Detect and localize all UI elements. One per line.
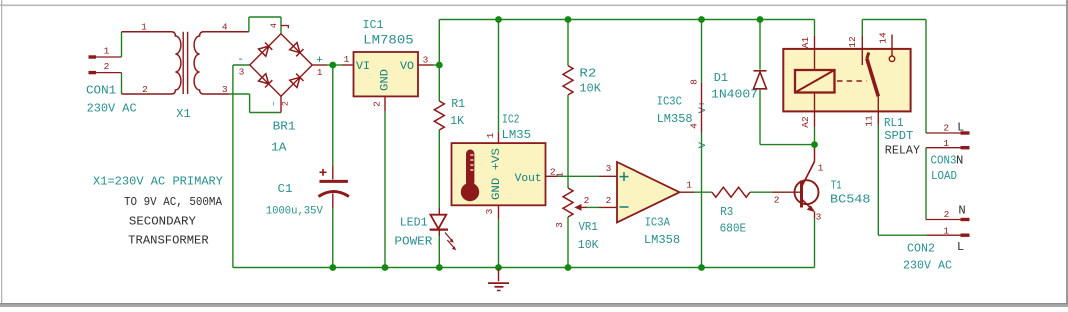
svg-text:R1: R1	[451, 97, 465, 111]
wire D1 anode down	[759, 89, 761, 145]
svg-text:LED1: LED1	[400, 216, 428, 230]
IC1 output lead	[418, 64, 439, 66]
svg-text:T1: T1	[831, 178, 842, 192]
BR1 pin number 1	[317, 67, 323, 78]
label 680E	[720, 222, 747, 236]
T1 base bar	[800, 181, 803, 208]
BR1 plus pin name	[316, 55, 323, 67]
svg-text:1N4007: 1N4007	[711, 88, 758, 102]
junction dot IC1 out	[436, 62, 443, 69]
IC1 pin name VI	[356, 61, 370, 73]
T1 base lead	[772, 191, 800, 193]
svg-text:1A: 1A	[271, 141, 287, 155]
op-amp pin number 3	[606, 163, 612, 174]
CON2 pin number 2	[944, 209, 950, 220]
wire VCC rail	[439, 19, 814, 21]
RL1 pin number 12	[847, 36, 858, 48]
svg-text:3: 3	[484, 208, 495, 214]
RL1 coil	[795, 70, 835, 93]
svg-text:V+: V+	[697, 101, 709, 114]
svg-text:1: 1	[943, 226, 949, 237]
wire D1 to collector node	[760, 144, 815, 146]
wire BR1+ to IC1 VI	[327, 64, 353, 66]
svg-text:A1: A1	[800, 37, 811, 49]
wire down to C1	[332, 65, 334, 180]
svg-text:X1=230V AC PRIMARY: X1=230V AC PRIMARY	[93, 175, 224, 189]
RL1 pin name A1	[800, 37, 811, 49]
svg-text:1: 1	[141, 22, 147, 33]
IC1 pin name VO	[400, 61, 414, 73]
VR1 pin number 1	[555, 172, 566, 178]
svg-text:VI: VI	[356, 61, 370, 73]
wire CON1.1 to X1.1	[121, 32, 123, 57]
wire VR1 wiper to op-amp -	[587, 206, 599, 208]
svg-text:14: 14	[878, 32, 889, 44]
wire R1 to LED1	[438, 130, 440, 215]
LED LED1 triangle	[430, 215, 446, 229]
wire op-amp out to R3	[694, 191, 712, 193]
svg-text:TO 9V AC, 500MA: TO 9V AC, 500MA	[124, 195, 223, 209]
svg-text:11: 11	[864, 115, 875, 127]
bridge rectifier BR1 diamond	[250, 34, 312, 96]
transformer X1 primary winding	[122, 32, 181, 94]
label 1N4007	[711, 88, 758, 102]
wire VR1 to bus	[567, 217, 569, 268]
LED LED1 cathode bar	[430, 229, 448, 231]
RL1 dashed actuator line	[837, 80, 867, 82]
svg-text:L: L	[957, 120, 964, 134]
label 10K (R2)	[579, 82, 601, 96]
svg-text:12: 12	[847, 36, 858, 48]
svg-text:N: N	[958, 204, 965, 218]
BR1 minus pin name	[237, 54, 244, 66]
svg-text:2: 2	[774, 195, 780, 206]
BR1 tilde bottom	[270, 101, 280, 106]
wire LM35 Vout to op-amp +	[557, 175, 599, 177]
svg-text:VO: VO	[400, 61, 414, 73]
wire BR1 minus down to ground bus	[233, 65, 250, 268]
resistor R1	[434, 101, 444, 130]
svg-text:2: 2	[943, 123, 949, 134]
label 1000u,35V	[266, 206, 323, 218]
X1 pin number 1	[141, 22, 147, 33]
CON3 pin number 2	[943, 123, 949, 134]
label X1	[176, 107, 190, 121]
wire RL1 pin11 down	[878, 125, 927, 236]
svg-text:C1: C1	[278, 182, 293, 196]
svg-text:POWER: POWER	[394, 235, 432, 249]
op-amp IC3A triangle	[617, 162, 680, 222]
wire CON3.1 to CON2.2	[925, 148, 927, 220]
IC1 pin number 1	[344, 54, 350, 65]
RL1 pin 11	[877, 96, 879, 124]
X1 pin number 2	[142, 84, 148, 95]
junction dot IC2 gnd/bus	[495, 264, 502, 271]
IC1 gnd pin	[384, 96, 386, 111]
svg-text:1: 1	[317, 67, 323, 78]
label LM358 (IC3A)	[644, 233, 680, 247]
junction dot LED1/bus	[436, 264, 443, 271]
svg-text:10K: 10K	[579, 82, 601, 96]
BR1 diode bottom-left	[259, 74, 273, 88]
wire rail to V+ pin	[701, 20, 703, 84]
svg-text:2: 2	[372, 101, 383, 107]
relay RL1 body	[783, 49, 910, 112]
svg-text:4: 4	[222, 22, 228, 33]
BR1 pin ac-top stub	[281, 26, 289, 29]
label 230V AC (CON1)	[87, 102, 137, 116]
wire X1.3 to BR1 ac-bottom	[229, 94, 281, 113]
BR1 pin number 2 (bottom)	[281, 101, 291, 106]
connector CON2 pin 1	[927, 234, 970, 236]
wire VCC riser	[438, 20, 440, 66]
wire T1 emitter to bus	[814, 218, 816, 268]
junction dot rail/V+	[698, 16, 705, 23]
junction dot rail/R2	[565, 16, 572, 23]
svg-text:SECONDARY: SECONDARY	[129, 215, 197, 229]
IC3C pin name V-	[697, 136, 709, 149]
resistor R3	[712, 187, 750, 197]
svg-text:3: 3	[606, 163, 612, 174]
svg-text:1: 1	[943, 138, 949, 149]
label 1A	[271, 141, 287, 155]
transformer X1 secondary winding	[194, 32, 249, 94]
svg-text:SPDT: SPDT	[884, 129, 913, 143]
wire V- to bus	[701, 133, 703, 268]
label R2	[579, 66, 596, 80]
svg-text:1: 1	[818, 163, 824, 174]
svg-text:GND +VS: GND +VS	[491, 148, 503, 200]
svg-text:3: 3	[239, 67, 245, 78]
svg-text:CON1: CON1	[86, 83, 116, 97]
RL1 pin 14 and contact	[889, 35, 895, 62]
junction dot V-/bus	[698, 264, 705, 271]
junction dot rail/D1	[757, 16, 764, 23]
IC2 pin number 1	[485, 132, 496, 138]
label IC2	[502, 113, 520, 127]
note line 2	[124, 195, 223, 209]
frame right edge	[1066, 0, 1068, 307]
label RL1	[884, 116, 904, 130]
svg-text:1: 1	[344, 54, 350, 65]
svg-text:IC2: IC2	[502, 113, 520, 127]
connector CON3 pin 2	[926, 132, 970, 134]
RL1 coil leads	[814, 49, 816, 112]
label LED1	[400, 216, 428, 230]
net label N (CON2)	[958, 204, 965, 218]
svg-text:IC3C: IC3C	[657, 94, 682, 108]
op-amp pin 2 lead	[599, 206, 617, 208]
IC3C pin name V+	[697, 101, 709, 114]
svg-text:A2: A2	[800, 116, 811, 128]
junction dot IC1 gnd/bus	[382, 264, 389, 271]
connector CON1 pin 1 pad	[89, 55, 122, 58]
svg-text:2: 2	[944, 209, 950, 220]
BR1 diode top-right	[290, 43, 304, 57]
RL1 pin 12	[861, 36, 863, 65]
regulator IC1 body	[354, 52, 419, 96]
IC2 pin name Vout	[515, 173, 542, 185]
svg-text:2: 2	[584, 195, 590, 206]
junction dot BR1+/C1	[329, 62, 336, 69]
label CON3	[931, 154, 957, 168]
note line 4	[128, 234, 209, 248]
label LM7805	[363, 33, 414, 48]
label C1	[278, 182, 293, 196]
svg-text:R2: R2	[579, 66, 596, 80]
wire LED1 to bus	[438, 230, 440, 268]
IC1 pin number 3	[423, 55, 429, 66]
wire CON1.2 to X1.2	[121, 73, 123, 94]
wire rail to RL1 A1	[814, 20, 816, 37]
note line 1	[93, 175, 224, 189]
svg-text:L: L	[957, 240, 964, 254]
capacitor C1 plus sign	[320, 169, 327, 176]
label LM35	[502, 128, 532, 142]
wire R3 to T1 base	[750, 191, 772, 193]
frame left edge	[1, 0, 2, 307]
svg-text:BC548: BC548	[830, 192, 871, 206]
VR1 pin number 3	[554, 222, 565, 228]
op-amp pin 3 lead	[599, 175, 617, 177]
label IC3C	[657, 94, 682, 108]
svg-text:R3: R3	[720, 205, 733, 219]
svg-text:LM358: LM358	[644, 233, 680, 247]
junction dot collector node	[811, 141, 818, 148]
svg-text:2: 2	[281, 101, 291, 106]
svg-text:IC1: IC1	[363, 18, 384, 32]
label R1	[451, 97, 465, 111]
svg-text:LOAD: LOAD	[931, 169, 957, 183]
svg-text:X1: X1	[176, 107, 190, 121]
net label L (CON2)	[957, 240, 964, 254]
svg-text:Vout: Vout	[515, 173, 542, 185]
RL1 pin number 11	[864, 115, 875, 127]
svg-text:V−: V−	[697, 136, 709, 149]
svg-text:LM7805: LM7805	[363, 33, 414, 48]
svg-text:RELAY: RELAY	[885, 144, 921, 158]
wire R2 to VR1	[567, 95, 569, 188]
connector CON1 pin 2 pad	[89, 71, 122, 74]
potentiometer VR1 body	[563, 188, 573, 217]
CON1 pin number 2	[104, 61, 110, 72]
connector CON3 pin 1	[926, 147, 970, 149]
capacitor C1 top plate	[320, 180, 348, 183]
label T1	[831, 178, 842, 192]
ground symbol	[488, 268, 509, 291]
wire IC2 gnd to bus	[498, 219, 500, 268]
op-amp pin number 2	[606, 195, 612, 206]
svg-text:3: 3	[423, 55, 429, 66]
svg-text:D1: D1	[714, 71, 728, 85]
net label N (CON3)	[956, 154, 963, 168]
wire junction to R1	[438, 65, 440, 101]
svg-text:3: 3	[554, 222, 565, 228]
X1 pin number 3	[222, 84, 228, 95]
wire RL1 pin12 to rail2	[861, 20, 863, 37]
wire rail2 down to CON3.2	[925, 20, 927, 134]
svg-text:2: 2	[142, 84, 148, 95]
label RELAY	[885, 144, 921, 158]
label 230V AC (CON2)	[903, 259, 952, 273]
svg-text:~: ~	[270, 101, 280, 106]
IC2 pin number 2	[550, 167, 556, 178]
IC2 pin 2 lead	[546, 175, 558, 177]
label SPDT	[884, 129, 913, 143]
svg-text:+: +	[316, 55, 323, 67]
BR1 pin ac-bottom stub	[280, 96, 282, 112]
svg-text:3: 3	[222, 84, 228, 95]
IC2 pin name GND +VS	[491, 148, 503, 200]
RL1 pin name A2	[800, 116, 811, 128]
BR1 pin number 3	[239, 67, 245, 78]
label D1	[714, 71, 728, 85]
svg-text:2: 2	[104, 61, 110, 72]
wire RL1 A2 to collector node	[814, 127, 816, 145]
T1 collector	[802, 147, 815, 186]
junction dot C1/bus	[329, 264, 336, 271]
IC3C V- pin	[701, 99, 703, 133]
svg-text:-: -	[237, 54, 244, 66]
resistor R2	[563, 66, 573, 95]
VR1 pin number 2	[584, 195, 590, 206]
IC1 pin name GND	[380, 69, 392, 91]
transistor T1 circle	[795, 180, 819, 204]
svg-text:680E: 680E	[720, 222, 747, 236]
connector CON2 pin 2	[926, 219, 970, 221]
svg-text:10K: 10K	[578, 238, 599, 252]
diode D1	[754, 71, 767, 89]
svg-text:1: 1	[485, 132, 496, 138]
svg-text:3: 3	[816, 212, 822, 223]
svg-text:8: 8	[689, 79, 700, 85]
op-amp plus marking	[620, 172, 629, 181]
svg-text:BR1: BR1	[273, 120, 296, 134]
IC2 pin 1 lead	[498, 133, 500, 144]
op-amp pin number 1	[686, 180, 692, 191]
wire IC1 gnd to bus	[384, 111, 386, 268]
svg-text:1000u,35V: 1000u,35V	[266, 206, 323, 218]
net label L (CON3)	[957, 120, 964, 134]
label CON1	[86, 83, 116, 97]
wire contact rail	[862, 19, 926, 21]
IC1 pin number 2	[372, 101, 383, 107]
svg-text:N: N	[956, 154, 963, 168]
svg-text:LM35: LM35	[502, 128, 532, 142]
BR1 plus lead	[312, 64, 327, 66]
svg-text:RL1: RL1	[884, 116, 904, 130]
CON1 pin number 1	[104, 46, 110, 57]
LED LED1 arrows	[445, 233, 456, 251]
svg-text:IC3A: IC3A	[645, 216, 671, 230]
ground bus wire	[233, 267, 815, 269]
T1 pin number 3	[816, 212, 822, 223]
RL1 switch arm	[867, 53, 879, 97]
CON3 pin number 1	[943, 138, 949, 149]
IC2 thermometer icon	[461, 150, 479, 202]
label BC548	[830, 192, 871, 206]
label 1K	[450, 114, 465, 128]
op-amp output lead	[680, 191, 695, 193]
svg-text:1: 1	[104, 46, 110, 57]
wire rail to D1 cathode	[759, 20, 761, 70]
label R3	[720, 205, 733, 219]
svg-text:230V AC: 230V AC	[87, 102, 137, 116]
CON2 pin number 1	[943, 226, 949, 237]
svg-text:CON2: CON2	[907, 242, 935, 256]
BR1 diode bottom-right	[290, 74, 304, 88]
wire rail to R2	[567, 20, 569, 66]
svg-text:VR1: VR1	[579, 220, 598, 234]
label 10K (VR1)	[578, 238, 599, 252]
X1 pin number 4	[222, 22, 228, 33]
BR1 diode top-left	[259, 43, 273, 57]
label CON2	[907, 242, 935, 256]
wire rail to IC2 Vs	[498, 20, 500, 133]
label IC3A	[645, 216, 671, 230]
sensor IC2 body	[452, 143, 546, 205]
transformer X1 core	[183, 32, 187, 94]
IC3C pin number 8	[689, 79, 700, 85]
T1 pin number 1	[818, 163, 824, 174]
RL1 pin A1	[814, 36, 816, 49]
IC3C pin number 4	[689, 123, 700, 129]
svg-text:TRANSFORMER: TRANSFORMER	[128, 234, 209, 248]
svg-text:230V AC: 230V AC	[903, 259, 952, 273]
T1 emitter	[802, 200, 815, 219]
IC3C V+ pin	[701, 83, 703, 99]
frame bottom band	[0, 303, 1068, 307]
label LM358 (IC3C)	[657, 112, 693, 126]
label POWER	[394, 235, 432, 249]
capacitor C1 bottom plate	[319, 192, 349, 197]
svg-text:CON3: CON3	[931, 154, 957, 168]
wire C1 to ground bus	[332, 194, 334, 268]
svg-text:4: 4	[269, 23, 279, 28]
wire X1.4 to BR1 ac-top	[249, 17, 281, 34]
junction dot VR1/bus	[565, 264, 572, 271]
note line 3	[129, 215, 197, 229]
svg-text:2: 2	[606, 195, 612, 206]
svg-text:GND: GND	[380, 69, 392, 91]
svg-text:1: 1	[686, 180, 692, 191]
junction dot rail/IC2	[495, 16, 502, 23]
svg-text:LM358: LM358	[657, 112, 693, 126]
BR1 pin number 4 (top)	[269, 23, 279, 28]
op-amp minus marking	[620, 206, 629, 208]
RL1 pin number 14	[878, 32, 889, 44]
IC2 pin 3 lead	[498, 205, 500, 219]
label BR1	[273, 120, 296, 134]
IC2 pin number 3	[484, 208, 495, 214]
frame top line	[0, 5, 1068, 7]
label LOAD	[931, 169, 957, 183]
label IC1	[363, 18, 384, 32]
svg-text:1K: 1K	[450, 114, 465, 128]
RL1 pin A2	[814, 111, 816, 127]
VR1 wiper arrow	[574, 204, 587, 211]
T1 pin number 2	[774, 195, 780, 206]
label VR1	[579, 220, 598, 234]
